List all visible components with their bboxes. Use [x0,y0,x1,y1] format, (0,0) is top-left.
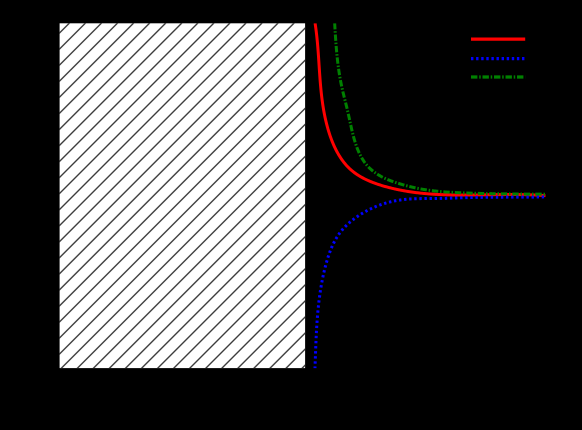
hatched region fill [60,23,306,368]
legend red solid sample [471,37,525,40]
legend green dash-dot sample [471,75,525,78]
green dash-dot curve [335,23,546,194]
legend blue dotted sample [471,57,525,60]
red solid curve [315,23,545,196]
hatched region hatch lines [60,23,306,368]
blue dotted curve [315,197,546,369]
